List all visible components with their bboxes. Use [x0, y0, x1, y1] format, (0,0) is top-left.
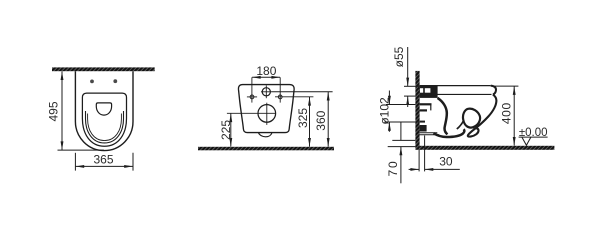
- inner bean (water/trap section): [463, 109, 480, 128]
- dimension 495 line: [61, 71, 63, 150]
- svg-text:70: 70: [386, 160, 400, 177]
- o55 tick top: [404, 85, 420, 87]
- skirt line lower: [420, 134, 439, 136]
- 30 dim right arrow: [425, 168, 460, 170]
- WC body outline (front view): [238, 85, 294, 133]
- tick mid: [392, 139, 415, 141]
- 30 extension left: [418, 149, 420, 171]
- seat hinge hole right: [113, 79, 117, 83]
- floor (hatched, side view): [420, 146, 555, 150]
- fixing hole right: [278, 95, 282, 99]
- bean tail: [457, 121, 464, 130]
- fixing hole right cross + 325 extension: [275, 96, 313, 98]
- mounting block (black): [420, 85, 438, 98]
- datum triangle: [522, 137, 531, 145]
- bowl bottom thick arc: [434, 129, 465, 137]
- o102 dim upper segment: [388, 91, 390, 105]
- 400 top tick: [494, 85, 518, 87]
- bowl inner rim second line: [88, 114, 122, 141]
- 30 extension right: [424, 136, 426, 172]
- dimension 360 line: [327, 92, 329, 147]
- svg-text:30: 30: [439, 154, 453, 168]
- dimension 180 line: [252, 76, 280, 78]
- outer underside curve: [468, 94, 497, 136]
- water area: [96, 103, 111, 115]
- 180 extension right: [279, 77, 281, 102]
- trap inner curve: [438, 98, 448, 134]
- connector line: [400, 122, 402, 140]
- big hole horizontal centerline + 225 extension: [227, 112, 276, 114]
- small hole centerlines: [261, 91, 272, 93]
- svg-text:325: 325: [296, 108, 310, 128]
- svg-text:225: 225: [219, 120, 233, 140]
- outlet pipe block: [420, 125, 427, 132]
- skirt line upper: [420, 132, 438, 134]
- big hole (flush pipe): [258, 105, 276, 123]
- wall (hatched bar, top view): [52, 67, 155, 71]
- dimension 365 line: [76, 165, 133, 167]
- datum underline: [519, 136, 548, 138]
- seat hinge hole left: [90, 80, 94, 84]
- dimension 70 line: [400, 147, 402, 184]
- dimension 225 line: [230, 114, 232, 147]
- o102 tick top: [386, 104, 415, 106]
- WC top surface (side view): [420, 85, 491, 87]
- fixing hole left: [250, 95, 254, 99]
- extension line bottom of bowl (495): [58, 149, 104, 151]
- fixing hole left cross: [247, 96, 257, 98]
- wall (hatched, side view): [415, 71, 419, 150]
- WC body outline (top view): [75, 71, 133, 150]
- svg-text:180: 180: [256, 64, 276, 78]
- extension line left (365): [74, 153, 76, 171]
- o55 dim lower segment: [407, 96, 409, 107]
- rim underside line: [437, 93, 491, 95]
- rim nose: [491, 86, 496, 95]
- floor (hatched bar, front view): [198, 147, 334, 151]
- svg-text:ø55: ø55: [392, 46, 406, 67]
- trap bump under body: [258, 133, 272, 137]
- extension to 360 (hole axis): [272, 91, 333, 93]
- dimension 325 line: [309, 97, 311, 147]
- svg-text:400: 400: [499, 102, 513, 124]
- svg-text:360: 360: [314, 110, 328, 130]
- 30 dim left arrow: [409, 168, 419, 170]
- svg-text:365: 365: [93, 153, 113, 167]
- o55 dim upper segment: [407, 47, 409, 86]
- floor level tick: [388, 146, 416, 148]
- svg-text:495: 495: [47, 101, 61, 121]
- extension line right (365): [132, 153, 134, 171]
- seat outer rim: [82, 93, 126, 146]
- big hole vertical centerline: [266, 103, 268, 125]
- o55 tick bottom: [404, 95, 415, 97]
- o102 dim lower segment: [388, 122, 390, 132]
- o102 tick bottom: [384, 121, 419, 123]
- 180 extension left: [251, 77, 253, 102]
- dimension 400 line: [513, 86, 515, 145]
- bowl inner rim: [86, 111, 124, 143]
- small hole (cistern supply): [262, 88, 270, 96]
- outlet detail lines: [420, 103, 432, 105]
